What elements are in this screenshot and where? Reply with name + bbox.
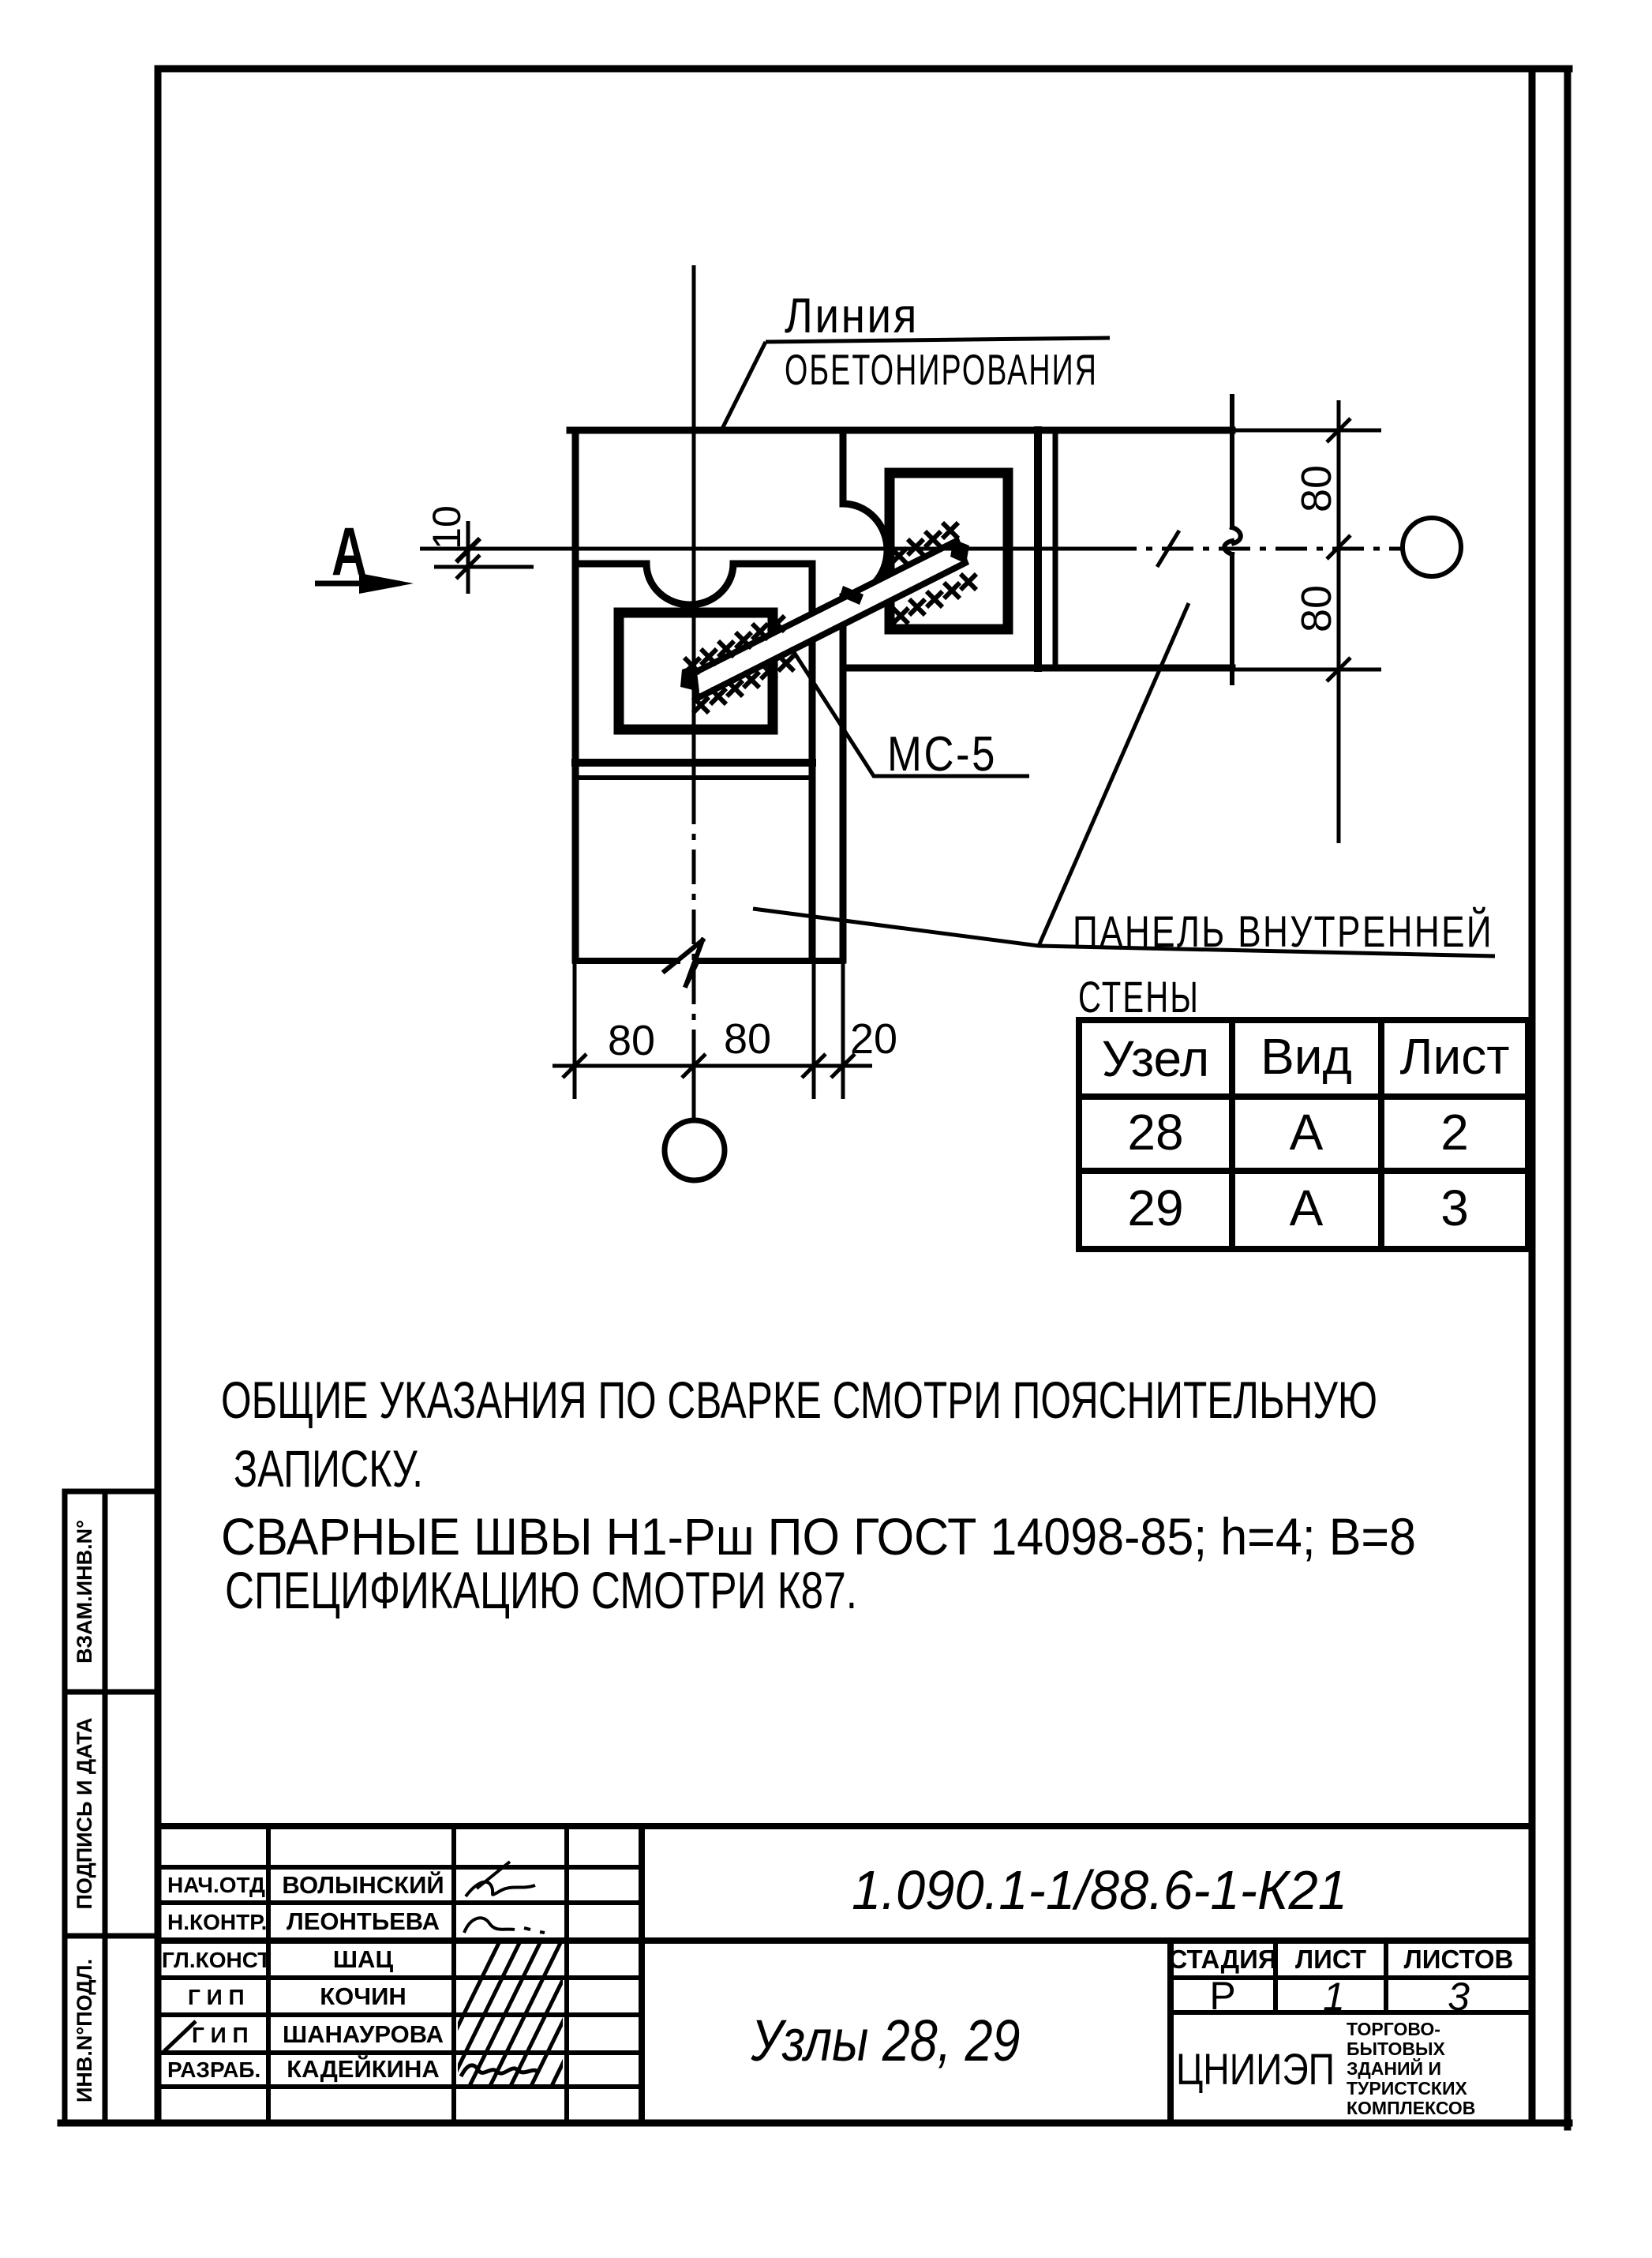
svg-text:ОБЕТОНИРОВАНИЯ: ОБЕТОНИРОВАНИЯ <box>785 345 1098 394</box>
svg-text:ВОЛЫНСКИЙ: ВОЛЫНСКИЙ <box>282 1870 444 1899</box>
svg-text:2: 2 <box>1440 1104 1469 1161</box>
svg-text:ЦНИИЭП: ЦНИИЭП <box>1176 2044 1335 2094</box>
svg-text:80: 80 <box>1293 585 1340 632</box>
svg-text:МС-5: МС-5 <box>887 727 997 782</box>
svg-text:ИНВ.N°ПОДЛ.: ИНВ.N°ПОДЛ. <box>73 1959 96 2102</box>
svg-text:Вид: Вид <box>1261 1028 1352 1085</box>
svg-text:20: 20 <box>850 1015 897 1063</box>
svg-text:Линия: Линия <box>785 289 919 343</box>
svg-text:ТОРГОВО-: ТОРГОВО- <box>1347 2019 1440 2039</box>
svg-text:А: А <box>332 513 367 589</box>
svg-text:ТУРИСТСКИХ: ТУРИСТСКИХ <box>1347 2078 1467 2099</box>
svg-text:Узлы 28, 29: Узлы 28, 29 <box>751 2008 1021 2073</box>
svg-text:80: 80 <box>724 1015 771 1063</box>
svg-text:1: 1 <box>1323 1975 1345 2019</box>
svg-text:НАЧ.ОТД.: НАЧ.ОТД. <box>167 1873 272 1897</box>
svg-text:ЛЕОНТЬЕВА: ЛЕОНТЬЕВА <box>287 1907 440 1935</box>
svg-text:Р: Р <box>1209 1974 1235 2018</box>
svg-text:Узел: Узел <box>1102 1030 1210 1087</box>
svg-text:29: 29 <box>1127 1180 1183 1236</box>
svg-text:ПОДПИСЬ И ДАТА: ПОДПИСЬ И ДАТА <box>73 1717 96 1909</box>
svg-text:А: А <box>1290 1104 1324 1161</box>
svg-text:ПАНЕЛЬ ВНУТРЕННЕЙ: ПАНЕЛЬ ВНУТРЕННЕЙ <box>1073 906 1493 956</box>
svg-text:СТАДИЯ: СТАДИЯ <box>1168 1945 1276 1974</box>
svg-text:28: 28 <box>1127 1104 1183 1161</box>
svg-text:ГЛ.КОНСТ: ГЛ.КОНСТ <box>162 1948 271 1972</box>
svg-text:Г И П: Г И П <box>192 2023 249 2047</box>
svg-text:А: А <box>1290 1180 1324 1236</box>
svg-text:1.090.1-1/88.6-1-К21: 1.090.1-1/88.6-1-К21 <box>852 1859 1347 1921</box>
svg-text:ЛИСТОВ: ЛИСТОВ <box>1404 1945 1514 1974</box>
svg-text:10: 10 <box>425 505 469 549</box>
svg-text:ОБЩИЕ УКАЗАНИЯ ПО СВАРКЕ СМОТР: ОБЩИЕ УКАЗАНИЯ ПО СВАРКЕ СМОТРИ ПОЯСНИТЕ… <box>221 1371 1377 1429</box>
svg-text:Лист: Лист <box>1399 1028 1509 1085</box>
svg-text:ЗАПИСКУ.: ЗАПИСКУ. <box>234 1439 423 1498</box>
svg-text:ВЗАМ.ИНВ.N°: ВЗАМ.ИНВ.N° <box>73 1520 96 1663</box>
svg-text:ШАНАУРОВА: ШАНАУРОВА <box>283 2020 444 2048</box>
svg-text:ЗДАНИЙ И: ЗДАНИЙ И <box>1347 2057 1441 2079</box>
svg-text:ШАЦ: ШАЦ <box>333 1945 394 1973</box>
svg-text:СТЕНЫ: СТЕНЫ <box>1078 972 1200 1022</box>
svg-text:80: 80 <box>608 1017 655 1064</box>
svg-text:БЫТОВЫХ: БЫТОВЫХ <box>1347 2039 1446 2059</box>
svg-text:ЛИСТ: ЛИСТ <box>1295 1945 1366 1974</box>
svg-text:Н.КОНТР.: Н.КОНТР. <box>167 1910 267 1934</box>
svg-text:КОЧИН: КОЧИН <box>320 1982 406 2010</box>
svg-text:СПЕЦИФИКАЦИЮ СМОТРИ К87.: СПЕЦИФИКАЦИЮ СМОТРИ К87. <box>225 1561 857 1619</box>
svg-text:3: 3 <box>1448 1975 1470 2019</box>
svg-text:РАЗРАБ.: РАЗРАБ. <box>167 2057 260 2082</box>
svg-text:КАДЕЙКИНА: КАДЕЙКИНА <box>287 2054 439 2083</box>
svg-text:Г И П: Г И П <box>188 1985 245 2009</box>
svg-text:СВАРНЫЕ ШВЫ Н1-Рш ПО ГОСТ 1409: СВАРНЫЕ ШВЫ Н1-Рш ПО ГОСТ 14098-85; h=4;… <box>221 1507 1416 1566</box>
svg-text:3: 3 <box>1440 1180 1469 1236</box>
svg-text:КОМПЛЕКСОВ: КОМПЛЕКСОВ <box>1347 2098 1475 2118</box>
svg-text:80: 80 <box>1293 465 1340 512</box>
